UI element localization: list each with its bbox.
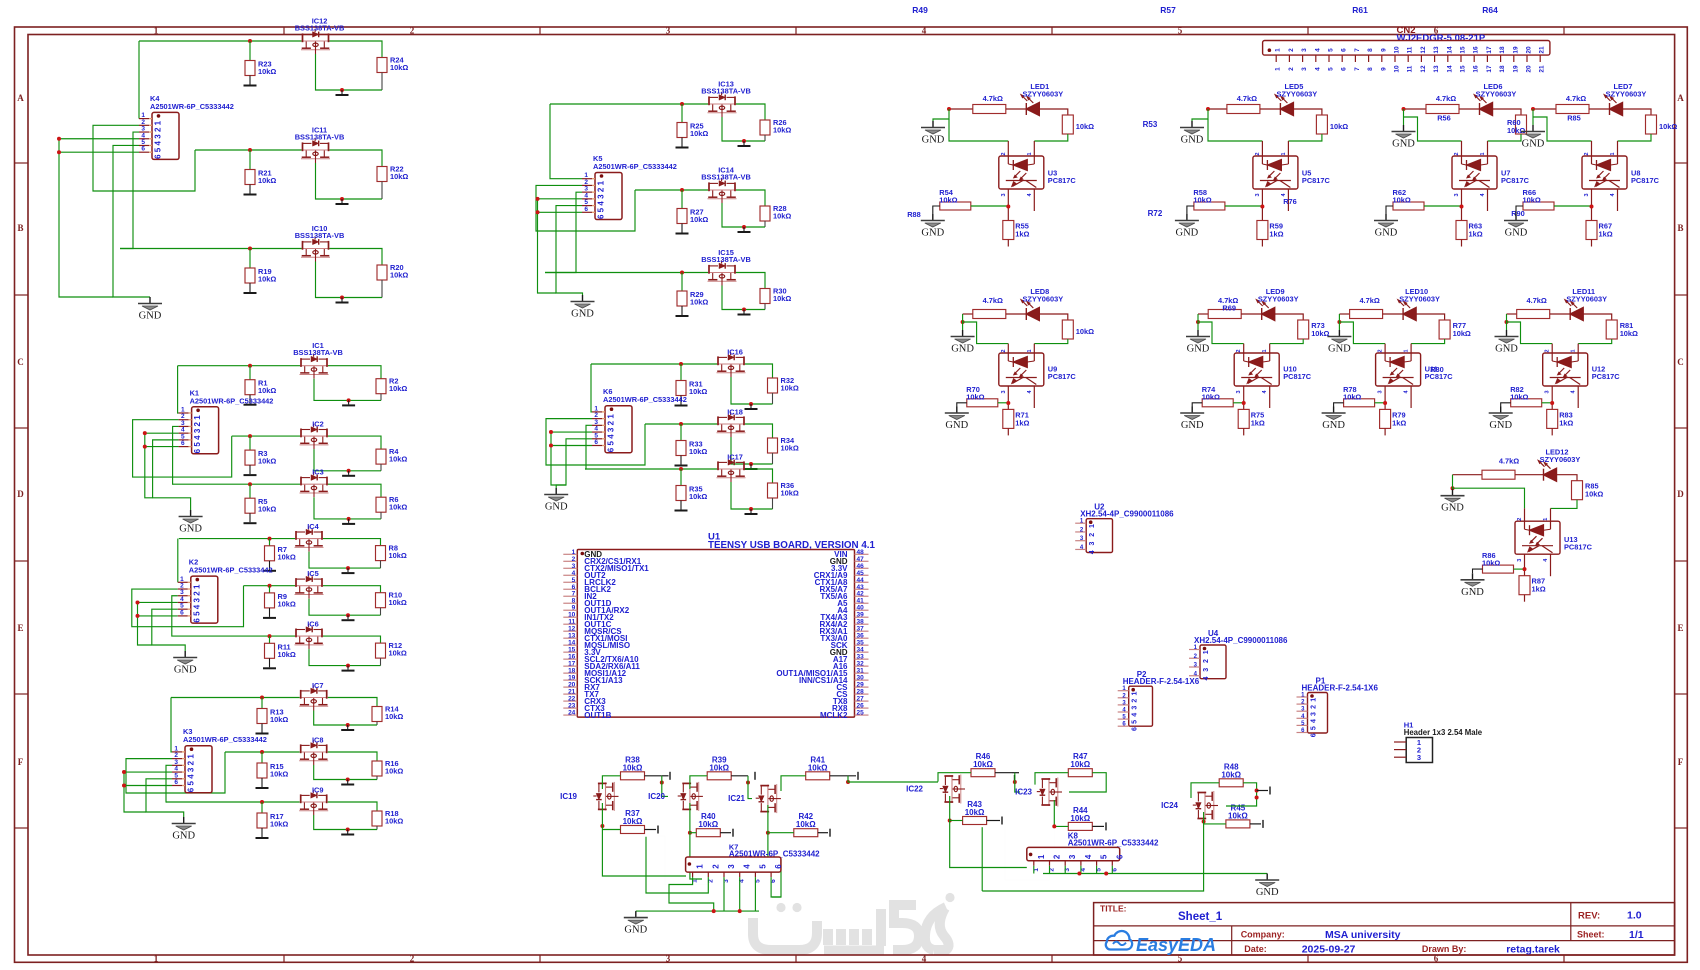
svg-text:3: 3 xyxy=(154,134,163,139)
svg-text:6: 6 xyxy=(193,448,202,453)
svg-text:HEADER-F-2.54-1X6: HEADER-F-2.54-1X6 xyxy=(1302,684,1379,693)
svg-text:2: 2 xyxy=(193,421,202,426)
svg-text:10kΩ: 10kΩ xyxy=(258,386,276,395)
svg-text:4: 4 xyxy=(572,570,576,577)
transistor IC21 xyxy=(756,784,781,813)
U1 pin 14 (MQSL/MISO) xyxy=(563,644,577,646)
svg-text:10kΩ: 10kΩ xyxy=(1330,122,1348,131)
svg-text:3: 3 xyxy=(1417,753,1421,762)
wire U10 pin1 feed xyxy=(1270,339,1304,344)
svg-text:10kΩ: 10kΩ xyxy=(966,392,984,401)
svg-text:2: 2 xyxy=(187,760,196,765)
ground under R66 xyxy=(1516,206,1523,214)
svg-text:32: 32 xyxy=(857,661,865,668)
svg-text:GND: GND xyxy=(951,344,974,355)
svg-text:A2501WR-6P_C5333442: A2501WR-6P_C5333442 xyxy=(150,102,234,111)
svg-text:16: 16 xyxy=(1473,65,1480,73)
svg-text:4: 4 xyxy=(922,26,927,36)
svg-text:10kΩ: 10kΩ xyxy=(781,384,799,393)
U1 pin 47 (GND) xyxy=(855,560,869,562)
svg-text:27: 27 xyxy=(857,696,865,703)
svg-text:10kΩ: 10kΩ xyxy=(690,215,708,224)
svg-text:6: 6 xyxy=(607,447,616,452)
junction R48 right xyxy=(1255,789,1259,793)
svg-text:R80: R80 xyxy=(1430,365,1444,374)
svg-text:SZYY0603Y: SZYY0603Y xyxy=(1606,90,1647,99)
resistor 4.7k series for LED7 xyxy=(1533,108,1556,110)
input feed wire for U11 xyxy=(1337,320,1341,324)
svg-text:GND: GND xyxy=(1176,228,1199,239)
svg-text:15: 15 xyxy=(568,647,576,654)
svg-text:5: 5 xyxy=(1311,726,1318,730)
resistor R39 (top) xyxy=(707,772,731,780)
svg-text:10kΩ: 10kΩ xyxy=(270,820,288,829)
resistor 4.7k series for LED10 xyxy=(1339,313,1349,315)
svg-text:2: 2 xyxy=(1203,659,1210,663)
svg-text:1kΩ: 1kΩ xyxy=(1392,418,1406,427)
svg-text:37: 37 xyxy=(857,626,865,633)
ground bus under IC12 xyxy=(381,73,383,91)
transistor IC2 (BSS138TA-VB) xyxy=(300,424,329,449)
wire row IC16 xyxy=(591,363,717,365)
connector K5 (A2501WR-6P_C5333442) xyxy=(595,173,622,220)
svg-text:R76: R76 xyxy=(1283,197,1297,206)
svg-text:GND: GND xyxy=(1441,503,1464,514)
svg-text:15: 15 xyxy=(1460,46,1467,54)
U1 pin 20 (RX7) xyxy=(563,686,577,688)
CN2 pin 2 xyxy=(1288,55,1290,62)
svg-text:10kΩ: 10kΩ xyxy=(689,387,707,396)
svg-text:20: 20 xyxy=(1526,46,1533,54)
svg-text:IC18: IC18 xyxy=(727,408,743,417)
junction K3 pin6 rail xyxy=(122,784,126,788)
svg-text:A2501WR-6P_C5333442: A2501WR-6P_C5333442 xyxy=(603,395,687,404)
CN2 pin 21 xyxy=(1539,55,1541,62)
svg-text:20: 20 xyxy=(1526,65,1533,73)
svg-text:34: 34 xyxy=(857,647,865,654)
svg-text:SZYY0603Y: SZYY0603Y xyxy=(1277,90,1318,99)
resistor R28 xyxy=(760,206,770,221)
svg-text:2: 2 xyxy=(1311,705,1318,709)
CN2 pin 16 xyxy=(1473,55,1475,62)
U1 pin 7 (IN2) xyxy=(563,595,577,597)
wire LED10 to pull resistor xyxy=(1416,314,1445,320)
U1 pin 28 (CS) xyxy=(855,693,869,695)
wire LED12 to pull resistor xyxy=(1557,475,1578,481)
wire K2 pin4/pin6 to ground rail xyxy=(138,601,178,603)
svg-text:12: 12 xyxy=(1420,46,1427,54)
transistor IC24 xyxy=(1193,791,1218,820)
ground bus under IC15 xyxy=(764,304,766,310)
optocoupler U12 (PC817C) xyxy=(1543,353,1588,386)
resistor R26 xyxy=(760,120,770,135)
svg-text:3: 3 xyxy=(666,26,671,36)
svg-text:1: 1 xyxy=(1610,152,1616,155)
resistor R40 (bottom) xyxy=(696,829,720,837)
svg-text:GND: GND xyxy=(1322,420,1345,431)
svg-text:1: 1 xyxy=(192,584,201,589)
U12 pin4 stub xyxy=(1577,386,1579,408)
resistor R59 1k xyxy=(1257,221,1268,240)
svg-text:3: 3 xyxy=(1584,193,1590,196)
svg-text:PC817C: PC817C xyxy=(1501,176,1530,185)
svg-text:BSS138TA-VB: BSS138TA-VB xyxy=(295,24,345,33)
wire row IC5 xyxy=(244,585,296,587)
ground K8 xyxy=(1266,874,1268,880)
U1 pin 31 (OUT1A/MISO1/A15) xyxy=(855,672,869,674)
svg-text:IC16: IC16 xyxy=(727,348,743,357)
transistor IC14 (BSS138TA-VB) xyxy=(708,178,737,203)
U1 pin 19 (SCK1/A13) xyxy=(563,679,577,681)
svg-text:1: 1 xyxy=(1311,698,1318,702)
wire K2 pin5 branch xyxy=(152,609,185,651)
transistor IC4 (BSS138TA-VB) xyxy=(295,526,324,551)
svg-text:GND: GND xyxy=(1522,139,1545,150)
junction at R5 top xyxy=(248,482,252,486)
wire K3 pin5 branch xyxy=(146,779,184,817)
resistor R27 xyxy=(681,190,683,209)
optocoupler U3 (PC817C) xyxy=(999,156,1044,189)
CN2 pin 20 xyxy=(1526,55,1528,62)
wire K1 pin1 riser xyxy=(178,366,179,413)
optocoupler U8 (PC817C) xyxy=(1582,156,1627,189)
wires K7 pins to ground bus xyxy=(658,836,708,885)
svg-text:44: 44 xyxy=(857,577,865,584)
resistor 10k pull-down xyxy=(1062,320,1073,339)
junction R83 top xyxy=(1550,401,1554,405)
watermark xyxy=(753,893,955,950)
svg-text:43: 43 xyxy=(857,584,865,591)
svg-text:4.7kΩ: 4.7kΩ xyxy=(1359,296,1379,305)
resistor 4.7k series for LED8 xyxy=(963,313,973,315)
svg-text:3: 3 xyxy=(1068,854,1077,859)
transistor IC15 (BSS138TA-VB) xyxy=(708,260,737,285)
wire R47 left loop xyxy=(1035,773,1068,785)
svg-text:1.0: 1.0 xyxy=(1627,910,1642,922)
U1 pin 38 (RX4/A2) xyxy=(855,623,869,625)
U1 pin 43 (RX5/A7) xyxy=(855,588,869,590)
resistor R54 base xyxy=(940,202,971,210)
svg-text:4: 4 xyxy=(922,954,927,964)
LED LED1 (SZYY0603Y) xyxy=(1006,108,1027,110)
ground under R74 xyxy=(1192,403,1202,407)
resistor R21 xyxy=(249,150,251,170)
svg-text:R57: R57 xyxy=(1160,5,1176,15)
svg-text:4: 4 xyxy=(187,774,196,779)
wire R37 right stub xyxy=(645,829,657,831)
svg-text:4.7kΩ: 4.7kΩ xyxy=(1499,457,1519,466)
wire U5 pin1 feed xyxy=(1288,134,1322,141)
wire R45 right stub xyxy=(1250,823,1261,825)
input feed wire for U9 xyxy=(961,320,965,324)
svg-text:10kΩ: 10kΩ xyxy=(689,492,707,501)
ground K3 xyxy=(183,817,185,823)
svg-text:4: 4 xyxy=(1084,854,1093,859)
ground at U10 input xyxy=(1197,330,1199,336)
svg-text:R49: R49 xyxy=(912,5,928,15)
svg-text:3: 3 xyxy=(1454,193,1460,196)
wire R82 to U12 pin3 xyxy=(1542,402,1553,404)
ground K1 xyxy=(190,510,192,516)
input feed wire for U12 xyxy=(1505,320,1509,324)
junction K7 bus 2 xyxy=(738,909,742,913)
svg-text:10kΩ: 10kΩ xyxy=(773,294,791,303)
optocoupler U5 (PC817C) xyxy=(1253,156,1298,189)
svg-text:25: 25 xyxy=(857,710,865,717)
wire K1 pin2 branch xyxy=(133,420,232,477)
svg-text:10kΩ: 10kΩ xyxy=(270,715,288,724)
wire K5 pin2 branch xyxy=(536,185,635,231)
svg-text:10kΩ: 10kΩ xyxy=(1202,392,1220,401)
svg-text:1: 1 xyxy=(597,180,606,185)
svg-text:4.7kΩ: 4.7kΩ xyxy=(983,296,1003,305)
junction R44 xyxy=(1052,824,1056,828)
svg-text:10kΩ: 10kΩ xyxy=(385,712,403,721)
U1 pin 36 (TX3/A0) xyxy=(855,637,869,639)
svg-text:10kΩ: 10kΩ xyxy=(389,649,407,658)
svg-text:40: 40 xyxy=(857,605,865,612)
svg-text:GND: GND xyxy=(922,135,945,146)
svg-text:2: 2 xyxy=(1001,349,1007,352)
ground bus under IC4 xyxy=(380,561,382,569)
U1 pin 10 (IN1/TX2) xyxy=(563,616,577,618)
svg-text:47: 47 xyxy=(857,556,865,563)
svg-text:5: 5 xyxy=(607,441,616,446)
wire U12 pin1 feed xyxy=(1578,339,1612,344)
svg-text:3: 3 xyxy=(1236,390,1242,393)
resistor R6 xyxy=(376,497,386,512)
junction K3 pin4 rail xyxy=(122,770,126,774)
U1 pin 4 (OUT2) xyxy=(563,574,577,576)
transistor IC12 (BSS138TA-VB) xyxy=(301,29,330,54)
junction K6 pin6 rail xyxy=(549,444,553,448)
CN2 pin 4 xyxy=(1315,55,1317,62)
U1 pin 35 (SCK) xyxy=(855,644,869,646)
resistor R47 (top) xyxy=(1068,769,1092,777)
svg-text:GND: GND xyxy=(1187,344,1210,355)
svg-text:GND: GND xyxy=(1181,135,1204,146)
resistor R19 xyxy=(249,249,251,269)
wire R40 left junction xyxy=(688,831,692,835)
wire R41 left loop xyxy=(781,776,806,791)
ground under R54 xyxy=(933,206,940,214)
svg-text:1: 1 xyxy=(1543,518,1549,521)
svg-text:10kΩ: 10kΩ xyxy=(1453,329,1471,338)
connector K3 (A2501WR-6P_C5333442) xyxy=(185,746,212,793)
svg-text:IC3: IC3 xyxy=(312,468,324,477)
svg-text:10kΩ: 10kΩ xyxy=(773,212,791,221)
wire LED6 to pull resistor xyxy=(1493,109,1522,115)
junction K8 bus 1 xyxy=(1077,872,1081,876)
svg-text:PC817C: PC817C xyxy=(1048,372,1077,381)
svg-text:IC19: IC19 xyxy=(560,792,577,801)
CN2 pin 5 xyxy=(1328,55,1330,62)
U1 pin 1 (GND) xyxy=(563,553,577,555)
resistor R22 xyxy=(377,167,387,182)
wire row IC15 xyxy=(545,272,708,274)
input feed wire for U7 xyxy=(1402,107,1406,111)
svg-text:14: 14 xyxy=(1446,46,1453,54)
resistor R29 xyxy=(681,273,683,292)
wire R43 left junction xyxy=(948,819,952,823)
svg-text:4: 4 xyxy=(1089,550,1096,554)
resistor R60 pull-down xyxy=(1516,115,1527,134)
svg-text:10kΩ: 10kΩ xyxy=(389,598,407,607)
EasyEDA logo xyxy=(1106,931,1216,955)
wire R78 to U11 pin3 xyxy=(1375,402,1386,404)
svg-text:10kΩ: 10kΩ xyxy=(690,298,708,307)
wire R44 right stub xyxy=(1092,825,1104,827)
junction K8 bus 2 xyxy=(1104,872,1108,876)
input feed wire for U10 xyxy=(1196,320,1200,324)
svg-text:38: 38 xyxy=(857,619,865,626)
transistor IC3 (BSS138TA-VB) xyxy=(300,472,329,497)
junction R55 top xyxy=(1006,205,1010,209)
wire K5 pin1 riser xyxy=(550,104,582,179)
svg-text:1kΩ: 1kΩ xyxy=(1469,230,1483,239)
svg-text:2: 2 xyxy=(597,187,606,192)
wire row IC12 xyxy=(139,40,302,42)
junction R59 top xyxy=(1260,205,1264,209)
ground K5 xyxy=(582,295,584,301)
svg-text:17: 17 xyxy=(568,661,576,668)
svg-text:12: 12 xyxy=(1420,65,1427,73)
U1 pin 26 (RX8) xyxy=(855,707,869,709)
svg-text:R85: R85 xyxy=(1567,114,1581,123)
svg-text:1: 1 xyxy=(1275,67,1282,71)
transistor IC22 xyxy=(940,775,965,804)
resistor R87 1k xyxy=(1519,576,1530,595)
CN2 pin 7 xyxy=(1354,55,1356,62)
wire R74 to U10 pin3 xyxy=(1233,402,1244,404)
junction K6 pin4 rail xyxy=(549,430,553,434)
svg-text:GND: GND xyxy=(1181,420,1204,431)
ground at U3 input xyxy=(932,121,934,127)
CN2 pin 10 xyxy=(1394,55,1396,62)
wire R37 left junction xyxy=(600,824,604,828)
svg-text:10kΩ: 10kΩ xyxy=(278,599,296,608)
wire K1 pin3 branch xyxy=(172,426,178,484)
svg-text:3: 3 xyxy=(727,864,736,869)
svg-text:10kΩ: 10kΩ xyxy=(1523,196,1541,205)
resistor 4.7k series for LED5 xyxy=(1208,108,1227,110)
junction at R27 top xyxy=(680,188,684,192)
wire R48 left loop xyxy=(1191,783,1219,798)
svg-text:13: 13 xyxy=(568,633,576,640)
connector K1 (A2501WR-6P_C5333442) xyxy=(192,407,219,454)
resistor R9 xyxy=(269,586,271,593)
optocoupler U11 (PC817C) xyxy=(1376,353,1421,386)
junction R79 top xyxy=(1383,401,1387,405)
junction at R3 top xyxy=(248,434,252,438)
svg-text:F: F xyxy=(18,757,24,767)
resistor R14 xyxy=(372,707,382,722)
svg-text:1: 1 xyxy=(1203,650,1210,654)
U1 pin 40 (A4) xyxy=(855,609,869,611)
junction R63 top xyxy=(1460,205,1464,209)
ground under R86 xyxy=(1473,569,1483,573)
svg-text:10kΩ: 10kΩ xyxy=(270,770,288,779)
wire R38 left loop xyxy=(602,776,620,789)
svg-text:C: C xyxy=(1677,357,1684,367)
svg-text:10kΩ: 10kΩ xyxy=(1585,490,1603,499)
U1 pin 24 (OUT1B) xyxy=(563,714,577,716)
wire K3 pin1 riser xyxy=(171,698,172,752)
ground under R70 xyxy=(957,403,967,407)
svg-text:PC817C: PC817C xyxy=(1283,372,1312,381)
wire row IC3 xyxy=(172,483,300,485)
ground bus under IC2 xyxy=(380,464,382,471)
svg-text:10kΩ: 10kΩ xyxy=(258,275,276,284)
svg-text:IC2: IC2 xyxy=(312,420,324,429)
resistor R20 xyxy=(377,265,387,280)
svg-text:2: 2 xyxy=(1545,349,1551,352)
optocoupler U9 (PC817C) xyxy=(999,353,1044,386)
svg-text:14: 14 xyxy=(1446,65,1453,73)
svg-text:10kΩ: 10kΩ xyxy=(1221,770,1241,779)
svg-text:6: 6 xyxy=(154,154,163,159)
svg-text:GND: GND xyxy=(172,831,195,842)
wire U7 pin1 feed xyxy=(1488,134,1522,141)
U1 pin 17 (SDA2/RX6/A11) xyxy=(563,665,577,667)
svg-text:2: 2 xyxy=(1236,349,1242,352)
resistor R10 xyxy=(376,593,386,608)
resistor 4.7k series for LED9 xyxy=(1198,313,1208,315)
resistor R11 xyxy=(269,636,271,643)
title block xyxy=(1094,903,1675,955)
svg-text:2: 2 xyxy=(1089,533,1096,537)
ground bus under IC14 xyxy=(764,221,766,227)
svg-text:2: 2 xyxy=(1053,854,1062,859)
resistor R18 xyxy=(372,811,382,826)
LED LED12 (SZYY0603Y) xyxy=(1515,474,1544,476)
svg-text:7: 7 xyxy=(572,591,576,598)
wire R44 area to K8 xyxy=(1053,826,1055,847)
wire K5 pin3 branch xyxy=(545,192,582,272)
svg-text:24: 24 xyxy=(568,710,576,717)
U1 pin 9 (OUT1A/RX2) xyxy=(563,609,577,611)
wire row IC11 xyxy=(195,149,302,151)
svg-text:6: 6 xyxy=(572,584,576,591)
svg-text:16: 16 xyxy=(1473,46,1480,54)
junction at R25 top xyxy=(680,102,684,106)
svg-text:3: 3 xyxy=(607,427,616,432)
svg-text:5: 5 xyxy=(1100,854,1109,859)
resistor R24 xyxy=(377,58,387,73)
svg-text:5: 5 xyxy=(154,147,163,152)
svg-text:4: 4 xyxy=(193,435,202,440)
input feed wire for U5 xyxy=(1206,107,1210,111)
svg-text:Company:: Company: xyxy=(1241,930,1285,940)
wire R41 right run to IC22 xyxy=(830,775,856,777)
wire R42 right stub xyxy=(818,832,828,834)
U1 pin 41 (A5) xyxy=(855,602,869,604)
ground K2 xyxy=(184,651,186,657)
svg-text:1: 1 xyxy=(1275,48,1282,52)
U1 pin 44 (CTX1/A8) xyxy=(855,581,869,583)
svg-text:2: 2 xyxy=(1454,152,1460,155)
U11 pin4 stub xyxy=(1410,386,1412,408)
svg-text:PC817C: PC817C xyxy=(1048,176,1077,185)
junction at R33 top xyxy=(679,422,683,426)
resistor 4.7k series for LED6 xyxy=(1404,108,1427,110)
svg-text:6: 6 xyxy=(174,779,178,786)
LED LED7 (SZYY0603Y) xyxy=(1589,108,1610,110)
wire K8 left mesh xyxy=(981,827,983,891)
svg-text:10kΩ: 10kΩ xyxy=(698,820,718,829)
svg-text:A2501WR-6P_C5333442: A2501WR-6P_C5333442 xyxy=(183,735,267,744)
svg-text:3: 3 xyxy=(1132,706,1139,710)
